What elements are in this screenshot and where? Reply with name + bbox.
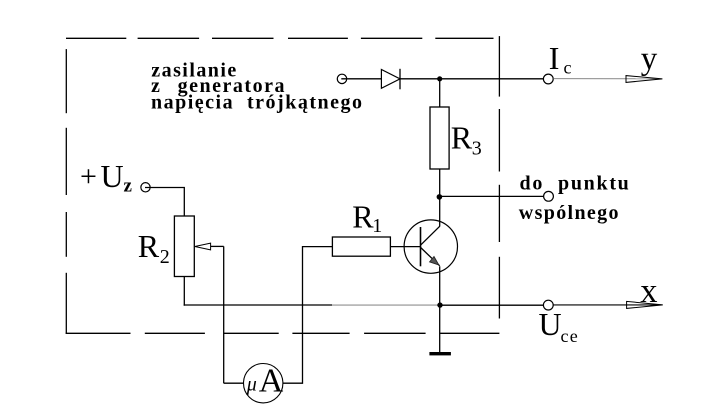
label Ic [549, 40, 572, 78]
label R1 [352, 198, 382, 237]
terminal (input from triangle generator) [337, 74, 346, 83]
label R3 [451, 120, 482, 160]
wire: junction to Uce terminal [440, 304, 544, 306]
svg-text:U: U [101, 158, 124, 194]
svg-text:3: 3 [472, 138, 482, 160]
svg-text:2: 2 [160, 246, 170, 268]
wire: R2 bottom down [183, 277, 185, 306]
diode D1 [381, 69, 400, 90]
resistor R3 [430, 107, 449, 169]
svg-text:I: I [549, 40, 560, 76]
wire: junction down to R3 [439, 79, 441, 107]
svg-text:1: 1 [372, 215, 382, 237]
svg-text:y: y [641, 41, 658, 77]
wire: terminal to diode anode [341, 78, 381, 80]
wire: bottom rail left section [184, 304, 332, 306]
wire: +Uz terminal to R2 top [145, 188, 184, 217]
transistor Q1 [404, 220, 457, 273]
wire: junction to common-point terminal [439, 195, 544, 197]
svg-text:ce: ce [561, 326, 579, 346]
svg-text:+: + [80, 160, 97, 193]
label: do punktu wspolnego [519, 173, 631, 225]
node: collector top junction [437, 76, 442, 81]
ground [429, 352, 451, 355]
wire: microammeter left lead [224, 382, 244, 384]
dashed enclosure box top border [66, 37, 494, 39]
svg-text:R: R [352, 198, 374, 234]
terminal +Uz [141, 183, 150, 192]
label Uce [539, 306, 579, 346]
wire: junction down to transistor collector [439, 197, 441, 227]
label R2 [138, 228, 170, 268]
node: emitter bottom junction [437, 302, 442, 307]
x axis line with arrow [553, 301, 663, 308]
svg-text:R: R [138, 228, 160, 264]
potentiometer R2 [174, 216, 194, 277]
svg-text:R: R [451, 120, 473, 156]
svg-text:μ: μ [246, 374, 257, 396]
terminal Uce [543, 300, 553, 310]
dashed enclosure box bottom border [66, 332, 500, 334]
microammeter uA [244, 363, 284, 403]
R2 wiper arrow [195, 243, 224, 250]
svg-text:A: A [259, 363, 284, 400]
wire: wiper down to microammeter [223, 246, 225, 383]
svg-text:wspólnego: wspólnego [519, 202, 620, 224]
resistor R1 [332, 237, 390, 256]
wire: R1 to transistor base [390, 246, 420, 248]
svg-text:z: z [124, 176, 133, 197]
wire: bottom rail gray section to emitter junction [332, 304, 440, 306]
node: common point junction [437, 194, 443, 200]
label: zasilanie z generatora napiecia trojkatnego [151, 60, 364, 114]
terminal: do punktu wspolnego [544, 191, 554, 201]
wire: diode cathode to Ic terminal [400, 78, 544, 80]
svg-text:c: c [564, 58, 572, 78]
wire: emitter down to ground [439, 266, 441, 352]
svg-text:x: x [640, 272, 657, 310]
wire: microammeter right lead up to R1 [283, 247, 333, 384]
terminal Ic [543, 74, 553, 84]
label +Uz [80, 158, 133, 197]
svg-text:napięcia trójkątnego: napięcia trójkątnego [151, 91, 364, 113]
svg-text:do punktu: do punktu [520, 173, 631, 195]
wire: R3 bottom to junction [439, 169, 441, 197]
dashed enclosure box left border [65, 49, 67, 333]
dashed enclosure box right border [498, 36, 500, 318]
y axis line with arrow [553, 76, 662, 83]
svg-text:U: U [539, 306, 562, 342]
